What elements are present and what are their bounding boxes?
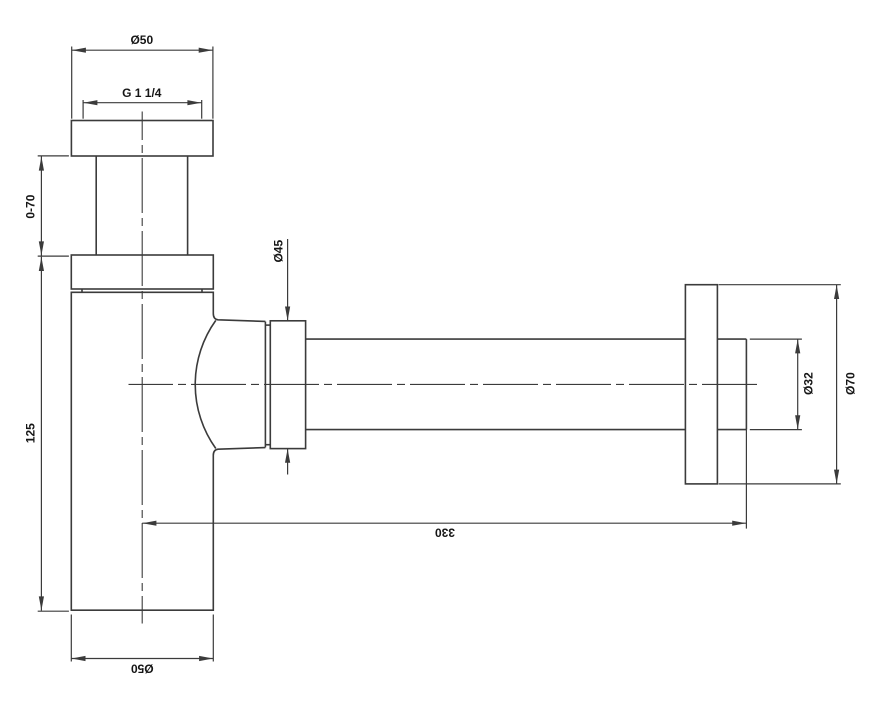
horizontal pipe [306,339,686,430]
pipe stub and end [717,339,746,430]
svg-text:Ø50: Ø50 [131,661,154,675]
centerline vertical body axis [141,112,143,624]
svg-text:Ø45: Ø45 [271,240,285,263]
centerline horizontal pipe axis [129,383,758,385]
compression nut [270,321,305,449]
threaded tube [96,156,187,255]
svg-text:Ø32: Ø32 [801,372,815,395]
dimension D32 [750,339,816,430]
dimension D50 top [72,33,213,119]
svg-text:330: 330 [435,525,455,539]
dimension D45 [271,239,290,475]
dimension 0-70 [23,156,69,256]
svg-text:Ø70: Ø70 [843,372,857,395]
svg-text:G 1 1/4: G 1 1/4 [122,86,162,100]
svg-text:125: 125 [23,423,37,443]
svg-text:0-70: 0-70 [23,194,37,218]
collar seam ticks [82,289,202,292]
outlet sphere arc [195,320,216,448]
seal ring [265,322,270,448]
dimension D70 [719,285,858,484]
svg-text:Ø50: Ø50 [130,33,153,47]
collar flange [71,255,213,289]
top flange [71,121,213,157]
dimension 125 [23,257,69,612]
trap body [71,292,265,610]
dimension G 1 1/4 [83,86,202,119]
wall flange rosette [685,285,717,484]
dimension D50 bottom [71,615,213,676]
dimension 330 [142,430,746,540]
